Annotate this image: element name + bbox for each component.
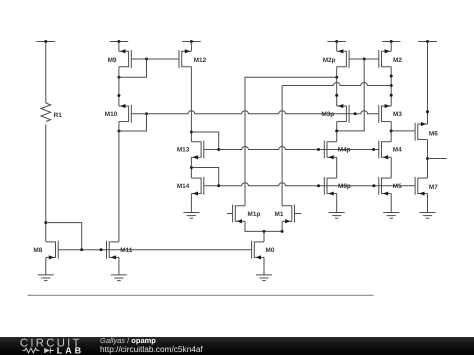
wire M0 source to ground — [263, 257, 265, 275]
logo diode — [44, 348, 50, 354]
transistor M4p — [324, 141, 350, 160]
footer bar — [0, 337, 474, 355]
transistor M6 — [415, 122, 438, 141]
transistor M0 — [252, 241, 275, 260]
node — [426, 110, 429, 113]
svg-text:M9: M9 — [108, 57, 117, 64]
transistor M12 — [179, 49, 207, 68]
svg-text:M3p: M3p — [321, 111, 334, 118]
node — [372, 148, 375, 151]
transistor M2p — [323, 49, 349, 68]
wire — [118, 42, 120, 52]
svg-text:M11: M11 — [120, 247, 133, 254]
transistor M5 — [379, 177, 402, 196]
svg-text:M6: M6 — [429, 130, 438, 137]
wire M3 drain to M6 gate — [391, 130, 415, 132]
wire M4 source to M5 drain — [390, 157, 392, 178]
svg-text:http://circuitlab.com/c5kn4af: http://circuitlab.com/c5kn4af — [100, 344, 204, 354]
power rail VDD (M2p) — [327, 40, 346, 43]
svg-text:M1: M1 — [275, 211, 284, 218]
power rail VDD (M6) — [418, 40, 437, 43]
wire tail to M0 — [263, 231, 265, 242]
wire — [390, 42, 392, 52]
node R1 bottom / M8 drain — [44, 221, 47, 224]
node — [390, 75, 393, 78]
wire M8 source to ground — [45, 257, 47, 275]
svg-text:M7: M7 — [429, 184, 438, 191]
transistor M1p — [233, 205, 261, 224]
svg-text:R1: R1 — [54, 112, 63, 119]
node M10 gate junction — [145, 112, 148, 115]
svg-text:M8p: M8p — [338, 183, 351, 190]
wire M13 diode loop — [191, 132, 218, 150]
wire output stub — [428, 158, 447, 160]
node — [117, 94, 120, 97]
wire M1p drain to M2p drain — [245, 77, 337, 206]
node — [217, 184, 220, 187]
node M10 drain — [117, 130, 120, 133]
ground (M11) — [111, 275, 127, 281]
wire — [190, 42, 192, 52]
svg-text:LAB: LAB — [57, 346, 84, 355]
svg-text:M4p: M4p — [338, 147, 351, 154]
wire — [336, 42, 338, 52]
node M12 drain / M13 drain — [190, 131, 193, 134]
transistor M4 — [379, 141, 402, 160]
power rail VDD (M2) — [382, 40, 401, 43]
wire gate row 6 (M8-M11-M0) — [58, 249, 251, 251]
node output — [426, 157, 429, 160]
wire M11 source to ground — [118, 257, 120, 275]
transistor M14 — [177, 177, 204, 196]
svg-text:M5: M5 — [393, 183, 402, 190]
wire M7 source to ground — [427, 194, 429, 213]
wire M1p source to tail — [245, 221, 282, 231]
ground (M8) — [38, 275, 54, 281]
ground (M14) — [183, 213, 199, 219]
wire M4p source to M8p drain — [336, 157, 338, 178]
wire gate row 4 (M14-M8p-M5-M7) — [204, 183, 415, 186]
transistor M8 — [33, 241, 58, 260]
ground (M5) — [383, 213, 399, 219]
ground (M7) — [420, 213, 436, 219]
node — [390, 94, 393, 97]
node tail / M0 drain — [263, 230, 266, 233]
node — [335, 94, 338, 97]
node M2p/M2 gate junction — [363, 58, 366, 61]
node M1 drain / M2 drain — [390, 84, 393, 87]
transistor M1 — [275, 205, 295, 224]
wire M3 drain to M4 drain — [390, 122, 392, 142]
transistor M13 — [177, 141, 204, 160]
wire M6 drain to M7 drain — [427, 140, 429, 179]
svg-text:M14: M14 — [177, 183, 190, 190]
power rail VDD (left) — [37, 40, 56, 43]
wire — [45, 42, 47, 104]
svg-text:M2p: M2p — [323, 57, 336, 64]
wire VDD to M6 source — [427, 42, 429, 125]
node M3p drain — [335, 129, 338, 132]
transistor M2 — [379, 49, 403, 68]
node M9 gate-drain junction — [145, 58, 148, 61]
svg-text:M10: M10 — [105, 111, 118, 118]
ground (M8p) — [329, 213, 345, 219]
wire M14 source to ground — [190, 194, 192, 213]
svg-text:M2: M2 — [393, 57, 402, 64]
svg-text:M0: M0 — [266, 247, 275, 254]
node — [317, 148, 320, 151]
wire — [45, 125, 47, 242]
wire M1p gate stub — [227, 213, 233, 215]
wire M9 drain to M10 source — [118, 67, 120, 106]
transistor M7 — [415, 177, 438, 196]
node — [217, 148, 220, 151]
node — [317, 184, 320, 187]
wire M10 diode loop — [119, 114, 147, 131]
wire M10 drain to M11 drain — [118, 122, 120, 242]
transistor M11 — [107, 241, 133, 260]
svg-text:M8: M8 — [33, 247, 42, 254]
wire M1 drain to M2 drain — [281, 86, 283, 206]
ground (M0) — [256, 275, 272, 281]
svg-text:M4: M4 — [393, 147, 402, 154]
node M3 drain — [390, 129, 393, 132]
power rail VDD (M12) — [182, 40, 201, 43]
wire M2p gate to M2 gate — [349, 58, 379, 60]
wire M8 diode loop — [46, 223, 82, 250]
logo waveform — [23, 348, 40, 353]
wire M9 diode loop — [119, 59, 147, 77]
node M9 drain — [117, 76, 120, 79]
wire M12 drain to M13 — [190, 67, 192, 142]
node — [372, 184, 375, 187]
node M8 gate junction — [80, 248, 83, 251]
wire M1 gate stub — [295, 213, 302, 215]
wire gate row 3 (M13-M4p-M4) — [204, 147, 379, 150]
power rail VDD (M9) — [110, 40, 129, 43]
node — [281, 230, 284, 233]
svg-text:M1p: M1p — [248, 211, 261, 218]
wire M5 source to ground — [390, 194, 392, 213]
wire M2 drain to M3 source — [390, 67, 392, 106]
node — [354, 112, 357, 115]
wire M9 gate to M12 gate — [131, 58, 179, 60]
wire M8p source to ground — [336, 194, 338, 213]
resistor R1 — [41, 103, 62, 121]
wire M2p drain to M3p source — [336, 67, 338, 106]
wire gate row 2 (M10-M3p-M3) — [131, 111, 378, 114]
svg-text:M12: M12 — [194, 57, 207, 64]
wire M3p drain to M4p drain — [336, 122, 338, 142]
node M1p drain / M2p drain — [335, 76, 338, 79]
node M14 drain — [190, 166, 193, 169]
node — [100, 248, 103, 251]
transistor M3 — [379, 104, 403, 123]
wire M13 source to M14 drain — [190, 157, 192, 178]
svg-text:M3: M3 — [393, 111, 402, 118]
svg-text:M13: M13 — [177, 147, 190, 154]
wire gate column to M3p drain — [337, 59, 365, 131]
transistor M3p — [321, 104, 349, 123]
transistor M8p — [324, 177, 351, 196]
wire M14 diode loop — [191, 168, 218, 186]
transistor M9 — [108, 49, 132, 68]
separator line — [28, 294, 374, 296]
transistor M10 — [105, 104, 132, 123]
